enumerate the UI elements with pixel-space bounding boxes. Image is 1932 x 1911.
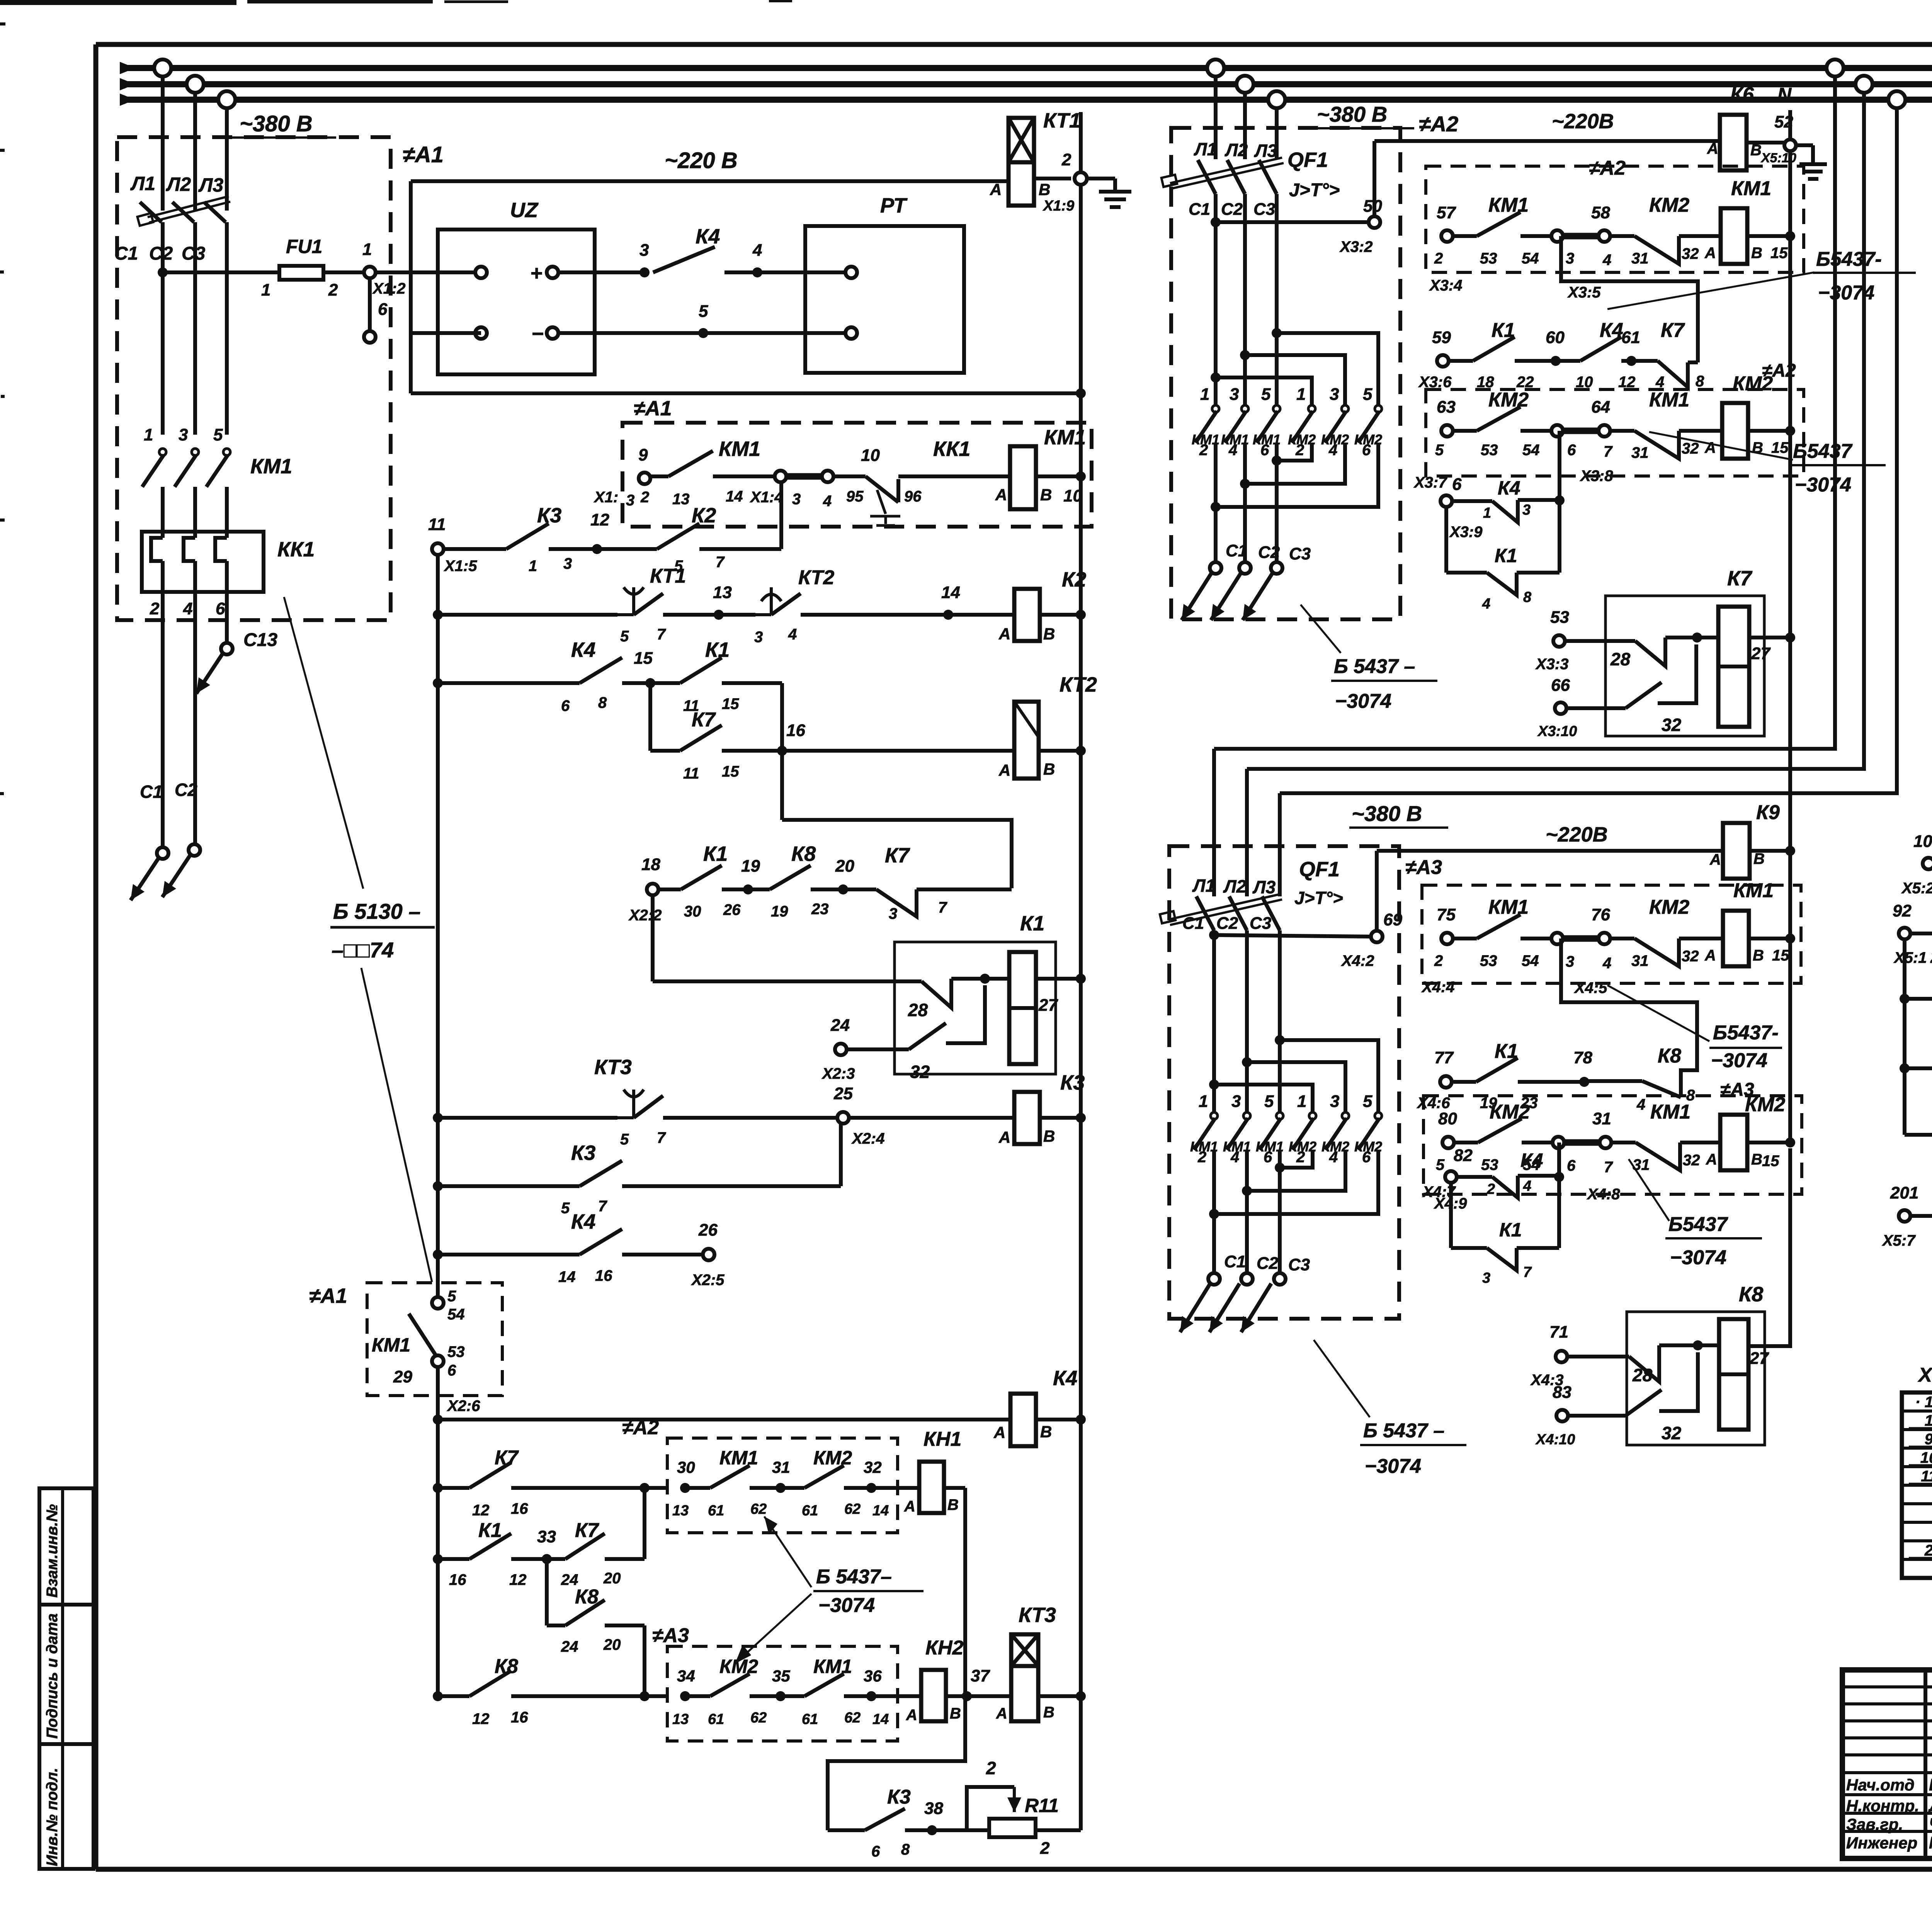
svg-text:К7: К7 xyxy=(1727,567,1753,590)
outgoing terminals block2 xyxy=(1210,562,1221,574)
breaker QF1 blades block3 xyxy=(1196,896,1214,930)
bus tap node L1 to block2 xyxy=(1207,60,1224,77)
node KT3 rung left xyxy=(433,1113,443,1123)
svg-text:1: 1 xyxy=(362,240,372,259)
node before K1 coil xyxy=(980,974,990,984)
svg-text:С3: С3 xyxy=(1289,544,1311,563)
svg-text:1: 1 xyxy=(261,281,270,299)
svg-text:КМ2: КМ2 xyxy=(1649,896,1689,918)
svg-text:3: 3 xyxy=(626,492,634,509)
svg-text:16: 16 xyxy=(786,721,805,740)
node 14 xyxy=(943,610,953,620)
svg-text:5: 5 xyxy=(1264,1092,1274,1111)
bus tap node L3 to block1 xyxy=(218,91,235,108)
svg-text:≠А3: ≠А3 xyxy=(1405,856,1442,879)
svg-text:С13: С13 xyxy=(243,630,277,650)
svg-text:28: 28 xyxy=(908,1000,928,1020)
svg-text:5: 5 xyxy=(620,1131,629,1148)
svg-text:X2:2: X2:2 xyxy=(628,907,662,924)
svg-text:К1: К1 xyxy=(1492,319,1515,342)
svg-text:КМ1: КМ1 xyxy=(250,455,292,478)
svg-text:А: А xyxy=(1704,245,1716,262)
svg-text:В: В xyxy=(1040,1423,1052,1441)
svg-text:2: 2 xyxy=(1061,150,1071,169)
svg-text:КМ1: КМ1 xyxy=(1650,1101,1690,1123)
svg-text:КТ1: КТ1 xyxy=(1043,109,1081,132)
svg-text:4: 4 xyxy=(1329,1149,1338,1166)
svg-text:−3074: −3074 xyxy=(1818,282,1874,304)
fuse FU1 xyxy=(279,266,323,280)
svg-text:96: 96 xyxy=(904,488,922,505)
phase tails block2 xyxy=(1214,443,1218,562)
jumper b3r2 xyxy=(1553,1137,1564,1148)
svg-text:3: 3 xyxy=(1231,1092,1241,1111)
leader Б5437 block3 rung1 xyxy=(1607,985,1709,1041)
svg-text:92: 92 xyxy=(1893,901,1912,920)
svg-text:~220 В: ~220 В xyxy=(665,148,738,173)
bus L1 xyxy=(120,65,1932,71)
svg-text:19: 19 xyxy=(771,903,788,920)
svg-text:32: 32 xyxy=(1682,440,1699,457)
svg-text:6: 6 xyxy=(1567,1157,1576,1174)
svg-text:К8: К8 xyxy=(1658,1045,1681,1067)
wire phase taps block1 lower xyxy=(161,222,165,435)
svg-text:К9: К9 xyxy=(1756,801,1780,824)
svg-text:32: 32 xyxy=(1682,948,1699,965)
svg-text:14: 14 xyxy=(558,1268,576,1285)
coil KH2 xyxy=(921,1670,946,1721)
svg-text:30: 30 xyxy=(684,903,701,920)
svg-text:20: 20 xyxy=(835,857,854,876)
svg-text:Б 5130 –: Б 5130 – xyxy=(333,899,421,923)
riser to 220 rail block2 xyxy=(1372,141,1376,216)
wire 50 collector xyxy=(1211,217,1221,227)
contact KM1 b2r1 xyxy=(1453,234,1477,238)
node rung2 left xyxy=(433,610,443,620)
svg-text:7: 7 xyxy=(657,1129,666,1146)
svg-text:1: 1 xyxy=(144,425,153,444)
svg-text:5: 5 xyxy=(561,1200,570,1217)
svg-text:53: 53 xyxy=(1550,608,1569,627)
relay PT box xyxy=(805,226,964,373)
wire K1 coil to rail xyxy=(1036,977,1081,981)
terminal 57 X3:4 xyxy=(1441,230,1453,242)
svg-text:27: 27 xyxy=(1038,996,1058,1015)
contact K1 loop block3 xyxy=(1451,1246,1487,1250)
wire fuse feed xyxy=(163,270,279,274)
relay block K1 outline xyxy=(895,942,1056,1074)
wire K8 coil to N corner xyxy=(1748,1148,1790,1346)
svg-text:15: 15 xyxy=(1772,947,1789,964)
svg-text:КН2: КН2 xyxy=(925,1637,964,1659)
contact K4 loop block3 xyxy=(1457,1175,1492,1179)
svg-text:X2:4: X2:4 xyxy=(851,1130,885,1147)
wire K2 coil to rail xyxy=(1040,613,1081,617)
svg-text:11: 11 xyxy=(428,515,446,534)
svg-text:5: 5 xyxy=(447,1288,456,1305)
wire phase blade tails block2 xyxy=(1214,194,1218,222)
svg-text:3: 3 xyxy=(1330,1092,1339,1111)
svg-text:X3:8: X3:8 xyxy=(1580,468,1613,485)
svg-text:X5:1: X5:1 xyxy=(1893,949,1927,966)
contact K3 hold xyxy=(438,1184,580,1188)
frame border xyxy=(96,42,1932,47)
svg-text:2: 2 xyxy=(1296,1149,1305,1166)
terminal 92 X5:1 xyxy=(1899,928,1910,939)
terminal X1:9 pin2 xyxy=(1075,172,1087,185)
node branch KH1 xyxy=(639,1483,650,1493)
disconnect blades QF block1 xyxy=(140,202,162,222)
svg-text:J>T°>: J>T°> xyxy=(1294,888,1343,908)
svg-text:А: А xyxy=(1706,1151,1717,1168)
contact KM2 b3r1 xyxy=(1610,937,1634,940)
svg-text:+: + xyxy=(530,262,543,285)
coil KM1 b2r1 xyxy=(1721,208,1747,264)
svg-text:Л2: Л2 xyxy=(166,173,191,195)
svg-text:24: 24 xyxy=(830,1016,850,1035)
svg-text:11: 11 xyxy=(683,765,699,782)
riser to terminal 25 xyxy=(839,1124,843,1186)
svg-text:77: 77 xyxy=(1434,1048,1454,1067)
svg-text:6: 6 xyxy=(1362,442,1371,459)
jumper 64 b2r2 xyxy=(1551,425,1563,437)
phase tails block3 xyxy=(1212,1150,1216,1273)
svg-text:201: 201 xyxy=(1890,1183,1918,1202)
svg-text:13: 13 xyxy=(672,491,690,508)
left rail lower xyxy=(436,1367,440,1696)
svg-text:3: 3 xyxy=(639,241,649,260)
contact KM1 aux xyxy=(650,474,668,478)
svg-text:12: 12 xyxy=(590,510,609,529)
svg-text:С2: С2 xyxy=(175,780,197,800)
label Б5437-3074 block2 380 xyxy=(1301,605,1341,653)
svg-text:К7: К7 xyxy=(495,1447,519,1469)
dashed box A3 rung2 xyxy=(1423,1096,1802,1194)
wire 220V top rail xyxy=(411,179,1009,183)
svg-text:К8: К8 xyxy=(1739,1283,1763,1306)
contactor KM1 main poles block1 xyxy=(159,449,166,456)
svg-text:15: 15 xyxy=(722,763,739,780)
svg-text:КМ1: КМ1 xyxy=(1733,879,1774,902)
dashed box A2 rung1 xyxy=(1426,166,1804,272)
svg-text:80: 80 xyxy=(1438,1109,1457,1128)
svg-text:2: 2 xyxy=(1924,1542,1932,1559)
svg-text:4: 4 xyxy=(752,241,762,260)
svg-text:К8: К8 xyxy=(575,1586,599,1608)
svg-text:5: 5 xyxy=(699,302,708,321)
bus tap node L2 to block1 xyxy=(187,76,204,93)
riser X1:4 to rung1 xyxy=(779,482,783,549)
svg-text:4: 4 xyxy=(1523,1178,1531,1194)
svg-text:26: 26 xyxy=(698,1221,718,1239)
svg-text:А: А xyxy=(904,1498,915,1515)
svg-text:Л2: Л2 xyxy=(1225,140,1248,160)
contact K8 rung18 xyxy=(748,887,770,891)
svg-text:КМ2: КМ2 xyxy=(1745,1093,1785,1116)
svg-text:4: 4 xyxy=(823,493,832,510)
svg-text:4: 4 xyxy=(1602,252,1611,269)
node K8 coil in xyxy=(1693,1340,1703,1350)
node rail-bottomloop xyxy=(1076,388,1086,398)
svg-text:4: 4 xyxy=(788,626,797,643)
svg-text:~380 В: ~380 В xyxy=(240,111,313,136)
svg-text:31: 31 xyxy=(1631,250,1649,267)
node K9 rung xyxy=(1900,1063,1910,1073)
svg-text:−3074: −3074 xyxy=(1795,474,1851,496)
svg-text:7: 7 xyxy=(657,626,666,643)
contact K9 right xyxy=(1905,1066,1932,1070)
svg-text:Зав.гр.: Зав.гр. xyxy=(1846,1815,1903,1833)
ground after KT1 xyxy=(1087,177,1115,180)
svg-text:J>T°>: J>T°> xyxy=(1289,180,1340,201)
dashed box A2 rung2 xyxy=(1426,389,1804,476)
dashed box A2 aux contacts xyxy=(667,1438,898,1533)
node 36 xyxy=(866,1691,876,1701)
svg-text:19: 19 xyxy=(741,857,760,876)
svg-text:КМ1: КМ1 xyxy=(372,1334,410,1356)
coil K6 xyxy=(1720,115,1747,170)
svg-text:К3: К3 xyxy=(571,1141,595,1165)
svg-text:Вишневский: Вишневский xyxy=(1929,1775,1932,1794)
svg-text:X1:4: X1:4 xyxy=(750,489,783,506)
svg-text:X2:6: X2:6 xyxy=(447,1398,480,1415)
svg-text:20: 20 xyxy=(603,1570,621,1587)
riser rung3 xyxy=(780,683,784,820)
svg-text:25: 25 xyxy=(833,1084,853,1103)
terminal 18 X2:2 xyxy=(647,884,658,895)
svg-text:С2: С2 xyxy=(1221,200,1243,219)
contact K1 rung3 xyxy=(650,681,680,685)
contact KM2 b2r2 xyxy=(1453,429,1477,433)
svg-text:Инженер: Инженер xyxy=(1846,1834,1917,1852)
terminal 75 X4:4 xyxy=(1441,933,1453,944)
svg-text:13: 13 xyxy=(672,1503,689,1519)
dashed enclosure A1 relay row xyxy=(622,423,1092,527)
svg-text:С1: С1 xyxy=(140,782,163,802)
node 61 xyxy=(1626,356,1636,366)
svg-text:62: 62 xyxy=(844,1501,861,1517)
terminal 71 X4:3 xyxy=(1556,1351,1567,1362)
svg-text:83: 83 xyxy=(1553,1383,1571,1402)
svg-text:К1: К1 xyxy=(478,1519,502,1542)
svg-text:X3:3: X3:3 xyxy=(1535,656,1569,673)
coil KT2 with delay mark xyxy=(1014,702,1039,779)
svg-text:Магулария: Магулария xyxy=(1929,1833,1932,1852)
branch 18 to K1 relay block xyxy=(651,895,655,981)
wire KT2 coil to rail xyxy=(1039,749,1081,753)
coil K1 double xyxy=(1009,952,1036,1064)
svg-text:27: 27 xyxy=(1749,1349,1769,1368)
svg-text:К1: К1 xyxy=(1020,912,1044,935)
title block verticals left part xyxy=(1923,1670,1927,1858)
svg-text:6: 6 xyxy=(378,300,388,319)
node 38 xyxy=(927,1825,937,1835)
terminal 59 X3:6 xyxy=(1437,355,1449,367)
breaker strap block3 xyxy=(1168,894,1281,920)
svg-text:8: 8 xyxy=(1696,373,1704,390)
svg-text:≠A1: ≠A1 xyxy=(403,142,444,167)
svg-text:30: 30 xyxy=(677,1458,695,1476)
svg-text:32: 32 xyxy=(864,1458,882,1476)
svg-text:QF1: QF1 xyxy=(1299,858,1340,881)
coil KM1 block1 xyxy=(1010,446,1036,509)
svg-text:54: 54 xyxy=(1522,442,1540,459)
svg-text:60: 60 xyxy=(1546,328,1565,347)
svg-text:15: 15 xyxy=(1770,245,1788,262)
contact K4 right bottom xyxy=(1910,1214,1932,1218)
svg-text:10: 10 xyxy=(1920,1449,1932,1466)
svg-text:В: В xyxy=(1753,947,1764,964)
svg-text:15: 15 xyxy=(722,695,739,712)
svg-text:~380 В: ~380 В xyxy=(1317,102,1387,126)
svg-text:10: 10 xyxy=(1063,486,1082,505)
svg-text:Б 5437 –: Б 5437 – xyxy=(1334,655,1415,678)
svg-text:–□□74: –□□74 xyxy=(332,938,394,962)
thermal relay KK1 box xyxy=(142,532,264,592)
svg-text:3: 3 xyxy=(1230,385,1239,404)
wire K6 to 52 xyxy=(1747,141,1784,145)
Z link b3r1 to K8 row xyxy=(1561,938,1697,1096)
coil K9 xyxy=(1723,823,1750,879)
rung X2:6 wire to K4 coil xyxy=(438,1418,1010,1421)
220V rail block3 xyxy=(1377,849,1723,853)
contact KM2 KH2 rung xyxy=(685,1694,710,1698)
svg-text:X3:9: X3:9 xyxy=(1449,524,1483,541)
contact K1 lower rung xyxy=(438,1557,469,1561)
contact KM2 KH1 rung xyxy=(781,1486,804,1490)
wire node16 to KT2 coil xyxy=(782,749,1014,753)
terminal 77 X4:6 xyxy=(1440,1076,1452,1088)
Z link to rung18 xyxy=(782,820,1012,888)
svg-text:76: 76 xyxy=(1591,905,1610,924)
contact K3 rung1 xyxy=(506,524,549,549)
svg-text:К1: К1 xyxy=(703,842,728,865)
svg-text:15: 15 xyxy=(1762,1153,1779,1170)
contact K4 row2 xyxy=(1556,359,1580,363)
svg-text:4: 4 xyxy=(183,599,192,618)
leader lines Б5437 ladder xyxy=(764,1517,811,1587)
svg-text:КМ1: КМ1 xyxy=(1488,194,1529,216)
phase lines block2 xyxy=(1214,222,1218,406)
left rail of ladder upper xyxy=(436,555,440,1297)
svg-text:16: 16 xyxy=(449,1571,466,1588)
svg-text:2: 2 xyxy=(640,489,649,506)
terminal 50 X3:2 xyxy=(1369,216,1380,228)
svg-text:10: 10 xyxy=(861,446,880,465)
svg-text:14: 14 xyxy=(941,583,960,602)
loop down k1 block3 xyxy=(1449,1183,1453,1248)
jumper X1:4 xyxy=(775,471,786,482)
contact K7 closing rung18 xyxy=(843,887,876,891)
svg-text:КМ2: КМ2 xyxy=(1649,194,1689,216)
terminal 53-6 xyxy=(432,1355,444,1367)
node rung3 left xyxy=(433,678,443,688)
outgoing terminals block3 xyxy=(1208,1273,1220,1285)
svg-text:16: 16 xyxy=(511,1500,528,1517)
svg-text:~220В: ~220В xyxy=(1552,110,1614,133)
wire K4 to PT xyxy=(724,270,845,274)
svg-text:К1: К1 xyxy=(1495,545,1517,566)
svg-text:59: 59 xyxy=(1432,328,1451,347)
contact 32 inside K1 block xyxy=(847,1047,909,1051)
svg-text:Инв.№ подл.: Инв.№ подл. xyxy=(44,1768,61,1866)
svg-text:35: 35 xyxy=(772,1667,790,1685)
svg-text:В: В xyxy=(1040,486,1052,504)
svg-text:1: 1 xyxy=(1296,385,1306,404)
node 15 xyxy=(645,678,655,688)
terminal 26 X2:5 xyxy=(703,1249,714,1260)
terminal 24 X2:3 xyxy=(835,1044,847,1055)
svg-text:4: 4 xyxy=(1228,442,1237,459)
svg-text:К8: К8 xyxy=(791,842,816,865)
feed steps to KM2 poles block3 xyxy=(1275,1035,1285,1045)
rheostat tap loop xyxy=(967,1787,1014,1830)
contact K4 loop block2 xyxy=(1452,499,1492,503)
right rail of ladder xyxy=(1079,112,1083,1830)
branch to K7 xyxy=(648,683,652,751)
svg-text:К7: К7 xyxy=(1661,319,1685,342)
svg-text:Чаруева: Чаруева xyxy=(1929,1815,1932,1834)
svg-text:К3: К3 xyxy=(1060,1071,1085,1094)
svg-text:Б5437-: Б5437- xyxy=(1816,248,1882,270)
svg-text:31: 31 xyxy=(1592,1109,1611,1128)
svg-text:2: 2 xyxy=(1434,250,1443,267)
terminal 82 X4:9 xyxy=(1445,1171,1457,1183)
contact KM1 KH1 rung xyxy=(685,1486,710,1490)
svg-text:К6: К6 xyxy=(1730,83,1754,106)
svg-text:9: 9 xyxy=(638,445,648,464)
svg-text:С3: С3 xyxy=(1288,1255,1310,1274)
svg-text:~380 В: ~380 В xyxy=(1352,801,1422,826)
svg-text:В: В xyxy=(1750,142,1762,159)
svg-text:В: В xyxy=(1751,1151,1762,1168)
svg-text:5: 5 xyxy=(1436,1156,1445,1173)
rung1 wire xyxy=(444,547,506,551)
svg-text:62: 62 xyxy=(844,1710,861,1726)
svg-text:28: 28 xyxy=(1632,1365,1653,1385)
svg-text:36: 36 xyxy=(864,1667,882,1685)
svg-text:КК1: КК1 xyxy=(933,437,970,461)
svg-text:14: 14 xyxy=(872,1503,889,1519)
svg-text:Л1: Л1 xyxy=(130,173,155,194)
svg-text:4: 4 xyxy=(1602,955,1611,972)
svg-text:К4: К4 xyxy=(571,1210,595,1233)
svg-text:≠А3: ≠А3 xyxy=(652,1624,689,1647)
KK1 heater elements xyxy=(151,538,163,561)
terminal 80 X4:7 xyxy=(1442,1137,1454,1148)
svg-text:А: А xyxy=(1704,439,1716,456)
ground block2 xyxy=(1796,143,1813,147)
contact KM1 b3r2 xyxy=(1611,1141,1636,1144)
svg-text:КТ3: КТ3 xyxy=(594,1056,632,1079)
svg-text:−: − xyxy=(531,322,544,345)
svg-text:3: 3 xyxy=(792,491,801,508)
block3 dashed enclosure 380V xyxy=(1169,846,1399,1319)
terminal 25 X2:4 xyxy=(837,1112,849,1124)
contact KT1 timed rung2 xyxy=(438,613,617,617)
wire K7 coil to N xyxy=(1749,636,1790,639)
bus tap node L2 to block2 xyxy=(1236,76,1253,93)
svg-text:Б 5437–: Б 5437– xyxy=(816,1566,892,1588)
svg-text:А: А xyxy=(998,625,1010,643)
svg-text:53: 53 xyxy=(1480,952,1497,969)
contact K2 rung1 xyxy=(597,547,657,551)
contact KT2 timed rung2 xyxy=(719,613,755,617)
svg-text:6: 6 xyxy=(1260,442,1269,459)
svg-text:32: 32 xyxy=(1683,1152,1700,1169)
wire b3r1 to N xyxy=(1749,937,1790,940)
Z link b2r1 to K7 row xyxy=(1561,236,1698,362)
